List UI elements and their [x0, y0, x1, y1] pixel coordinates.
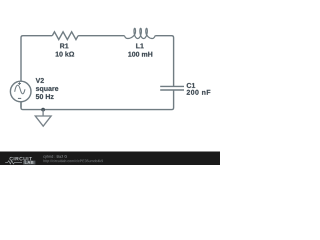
caption line 1 [43, 155, 67, 159]
capacitor C1 top plate [160, 85, 184, 87]
V2 plus sign [18, 82, 21, 85]
voltage source V2 circle [10, 81, 31, 102]
label 200 nF [187, 90, 211, 95]
label L1 [136, 43, 144, 48]
wire resistor to inductor [78, 35, 124, 37]
label square [36, 87, 58, 92]
junction dot (node) [41, 108, 45, 112]
wire source to bottom rail [20, 102, 22, 108]
logo LAB [25, 161, 34, 164]
wire top-left corner segment [21, 36, 52, 81]
ground stem [42, 110, 44, 116]
logo waveform [5, 161, 22, 164]
label 100 mH [128, 52, 152, 57]
V2 waveform symbol [15, 85, 25, 94]
label C1 [187, 83, 195, 88]
label 10 kOhm [56, 51, 75, 56]
ground triangle [35, 116, 51, 126]
V2 minus sign [18, 97, 21, 99]
label 50 Hz [36, 94, 54, 99]
wire capacitor to bottom rail [21, 90, 174, 110]
label R1 [60, 43, 68, 48]
wire inductor to top-right corner, down to capacitor [155, 36, 173, 86]
capacitor C1 bottom plate [160, 89, 184, 91]
watermark bar [0, 152, 220, 166]
logo LAB box [23, 161, 35, 165]
resistor R1 [52, 32, 78, 40]
logo CIRCUIT [10, 157, 33, 161]
caption line 2 (url) [43, 159, 103, 162]
inductor L1 [124, 28, 155, 38]
label V2 [36, 78, 44, 83]
